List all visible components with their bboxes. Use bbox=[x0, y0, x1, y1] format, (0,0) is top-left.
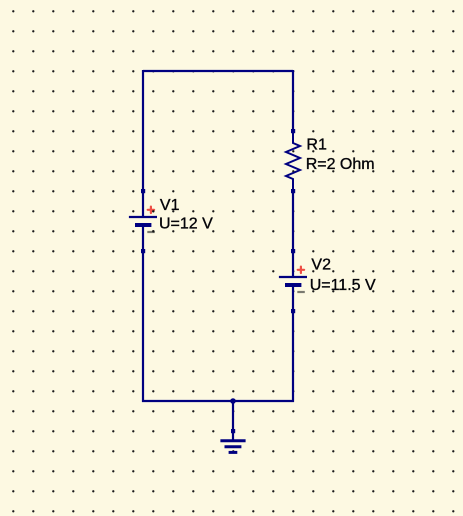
svg-text:R1: R1 bbox=[306, 137, 327, 154]
svg-text:R=2 Ohm: R=2 Ohm bbox=[306, 156, 375, 173]
pin square R1 pin 1 bbox=[291, 129, 295, 133]
grid dot overlapping V1 plus bbox=[152, 210, 154, 212]
voltage source V1 bbox=[129, 191, 157, 251]
pin square ground bbox=[231, 429, 235, 433]
V2 plus sign bbox=[298, 267, 304, 273]
pin square V2 pin 2 bbox=[291, 309, 295, 313]
pin square R1 pin 2 bbox=[291, 189, 295, 193]
pin square V1 pin 2 bbox=[141, 249, 145, 253]
ground bbox=[220, 431, 245, 452]
svg-text:U=11.5 V: U=11.5 V bbox=[310, 277, 376, 294]
wire ground stub bbox=[232, 401, 234, 431]
V2 minus sign bbox=[297, 291, 305, 293]
V1 minus sign bbox=[147, 231, 155, 233]
svg-text:V1: V1 bbox=[160, 197, 180, 214]
junction node at ground tap bbox=[230, 398, 236, 404]
wire top bbox=[143, 70, 293, 72]
wire right upper bbox=[292, 70, 294, 131]
resistor R1 bbox=[286, 131, 300, 191]
wire right middle (R1 to V2) bbox=[292, 191, 294, 251]
wire left upper bbox=[142, 70, 144, 191]
wire bottom bbox=[142, 400, 294, 402]
V1 plus sign bbox=[148, 207, 154, 213]
svg-text:V2: V2 bbox=[311, 257, 331, 274]
wire right lower bbox=[292, 311, 294, 402]
grid dot overlapping V1 minus bbox=[152, 230, 154, 232]
svg-text:U=12 V: U=12 V bbox=[159, 216, 213, 233]
voltage source V2 bbox=[279, 251, 307, 311]
pin square V2 pin 1 bbox=[291, 249, 295, 253]
pin square V1 pin 1 bbox=[141, 189, 145, 193]
wire left lower bbox=[142, 251, 144, 402]
